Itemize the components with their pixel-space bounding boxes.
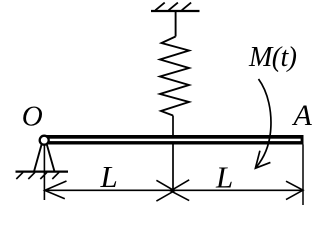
spring lower stem wire / middle extension line (172, 116, 174, 191)
ground hatch 3 (40, 172, 47, 179)
dimension line (44, 189, 303, 191)
svg-text:L: L (100, 159, 118, 194)
svg-text:L: L (215, 159, 233, 194)
right dimension arrowhead (286, 181, 303, 199)
right extension line under A (302, 145, 304, 206)
ground line under pin (16, 171, 69, 173)
ceiling hatch 1 (155, 3, 164, 11)
pin support triangle left leg (34, 145, 42, 172)
svg-text:M(t): M(t) (248, 42, 297, 73)
beam OA body (46, 135, 304, 145)
ceiling hatch 3 (182, 3, 191, 11)
spring upper stem wire (175, 11, 177, 37)
pin support triangle right leg (47, 145, 55, 172)
middle dimension arrowhead pointing left (171, 180, 190, 201)
ground hatch 2 (28, 172, 35, 179)
svg-text:O: O (22, 100, 43, 132)
svg-text:A: A (292, 99, 313, 132)
middle dimension arrowhead pointing right (156, 180, 174, 201)
ground hatch 1 (16, 172, 23, 179)
ceiling fixed support line (151, 10, 200, 12)
spring coils (160, 37, 189, 116)
ceiling hatch 2 (169, 3, 178, 11)
moment M(t) curved arrow (256, 79, 271, 168)
pin circle at O (40, 136, 49, 145)
pin center vertical / left extension line (43, 145, 45, 201)
moment arrowhead (255, 151, 270, 169)
ground hatch 4 (52, 172, 59, 179)
left dimension arrowhead (45, 181, 67, 199)
